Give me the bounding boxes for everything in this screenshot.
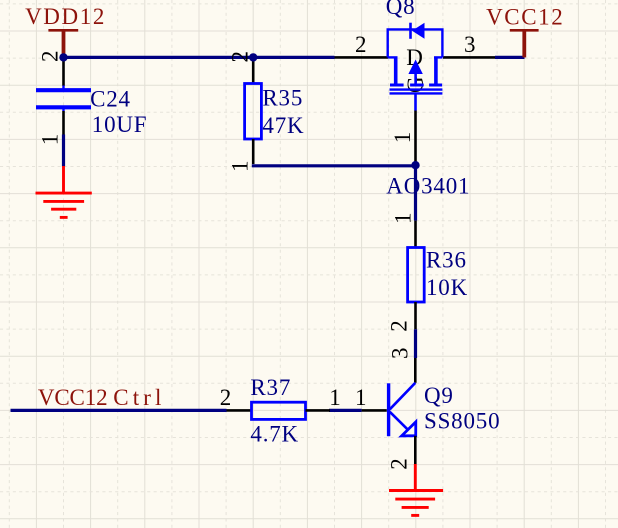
transistor Q9 pin 1 (base) <box>362 409 387 412</box>
transistor Q9 pin 2 (emitter) <box>414 436 417 464</box>
transistor Q8 pin 2 (source) <box>335 56 389 59</box>
wire junction down to R36 pin 1 <box>414 165 417 221</box>
transistor Q9 body SS8050 <box>389 383 416 436</box>
transistor Q8 pin 3 (drain) <box>443 56 495 59</box>
junction dot at R35 top <box>249 53 257 61</box>
svg-text:1: 1 <box>390 213 415 225</box>
wire C24 pin 1 to ground <box>62 135 65 167</box>
wire R37 pin 1 to Q9 base pin <box>329 409 362 412</box>
transistor Q8 pin 1 (gate) <box>414 111 417 165</box>
transistor Q9 pin 3 (collector) <box>414 358 417 383</box>
svg-text:47K: 47K <box>262 113 304 138</box>
capacitor C24 <box>36 57 91 134</box>
svg-text:Q9: Q9 <box>424 383 454 408</box>
svg-text:1: 1 <box>355 385 367 410</box>
svg-text:Q8: Q8 <box>386 0 416 19</box>
resistor R36 <box>408 221 425 330</box>
svg-text:R35: R35 <box>262 86 303 111</box>
svg-text:VCC12: VCC12 <box>486 5 564 30</box>
svg-text:10K: 10K <box>426 275 468 300</box>
svg-text:1: 1 <box>227 161 252 173</box>
svg-text:SS8050: SS8050 <box>424 409 500 434</box>
svg-text:1: 1 <box>38 134 63 146</box>
wire R35 bottom to Q8 gate junction <box>252 164 416 167</box>
svg-text:AO3401: AO3401 <box>386 173 470 198</box>
svg-text:2: 2 <box>220 385 232 410</box>
wire Q8 pin 3 to VCC12 <box>495 56 525 59</box>
svg-text:2: 2 <box>386 320 411 332</box>
wire top rail VDD12 to Q8 pin 2 <box>64 56 335 59</box>
svg-text:3: 3 <box>464 32 476 57</box>
svg-text:10UF: 10UF <box>92 112 148 137</box>
svg-text:R36: R36 <box>426 248 467 273</box>
svg-text:4.7K: 4.7K <box>250 421 299 446</box>
svg-text:VCC12 Ctrl: VCC12 Ctrl <box>38 385 166 410</box>
wire R36 pin 2 to Q9 collector pin <box>414 329 417 358</box>
svg-text:R37: R37 <box>250 375 291 400</box>
resistor R35 <box>245 57 262 164</box>
svg-text:2: 2 <box>386 458 411 470</box>
svg-text:2: 2 <box>227 51 252 63</box>
power flag VDD12 <box>48 30 78 57</box>
ground under Q9 <box>389 464 443 515</box>
svg-text:2: 2 <box>355 32 367 57</box>
ground under C24 <box>36 166 92 217</box>
wire VCC12_Ctrl net to R37 pin 2 <box>11 409 227 412</box>
svg-text:3: 3 <box>387 348 412 360</box>
svg-text:2: 2 <box>38 50 63 62</box>
junction dot at VDD12 column <box>59 53 67 61</box>
transistor Q8 MOSFET body <box>388 23 443 111</box>
svg-text:C24: C24 <box>90 86 131 111</box>
svg-text:1: 1 <box>329 385 341 410</box>
resistor R37 <box>227 402 331 419</box>
svg-text:1: 1 <box>390 132 415 144</box>
junction dot at gate node <box>411 161 419 169</box>
svg-text:VDD12: VDD12 <box>25 4 106 29</box>
power flag VCC12 <box>510 30 539 57</box>
